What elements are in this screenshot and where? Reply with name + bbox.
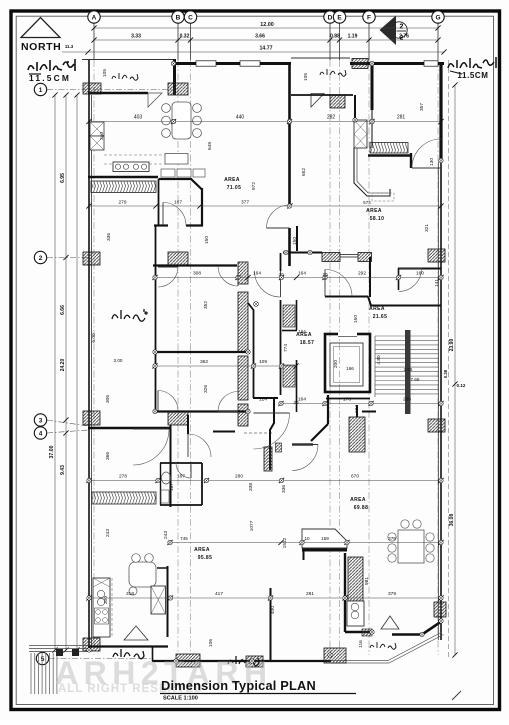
svg-text:243: 243 [105,529,111,537]
hatched wall x243 [238,262,248,284]
dim line y480 [86,474,443,484]
svg-text:1512: 1512 [282,537,288,548]
svg-text:167: 167 [174,200,182,206]
svg-text:167: 167 [169,483,175,491]
svg-text:AREA: AREA [350,497,366,503]
svg-text:340: 340 [99,132,105,140]
row3 lower wall [88,427,170,429]
right dimension chain [443,82,466,657]
bottom-right dining table [398,530,424,563]
svg-text:366: 366 [105,452,111,460]
bottom-left kitchen walls [167,566,169,637]
dining table [172,102,191,139]
kitchen wall y177 [88,176,158,178]
bottom-left kitchen table [129,562,156,587]
door arc bedroom bottom-left [188,434,211,457]
stair hall top wall [325,296,368,298]
grid bubble A [88,11,100,23]
grid bubble G [432,11,444,23]
kitchen appliances [90,122,104,136]
grid bubble C [184,11,196,23]
svg-text:69.88: 69.88 [354,505,369,511]
svg-text:400: 400 [270,606,276,614]
terrace label bottom-center [228,656,259,666]
svg-text:36.08: 36.08 [449,514,455,527]
svg-text:F: F [367,14,371,21]
grid bubble 2 [34,251,46,263]
svg-text:282: 282 [327,115,336,121]
svg-text:G: G [435,14,440,21]
svg-text:440: 440 [236,115,245,121]
svg-text:150: 150 [292,237,298,245]
grid bubble 4 [34,427,46,439]
svg-text:167: 167 [177,474,185,480]
kitchen counters bottom-right [347,601,364,626]
svg-text:SCALE 1:100: SCALE 1:100 [163,696,198,702]
radiator F-G room [370,143,408,154]
top dimension segments line [91,34,440,43]
top terrace D-F thin edge [291,57,350,59]
dim line y403 [259,397,444,407]
svg-text:649: 649 [207,142,213,150]
entry steps bottom-left [29,646,89,695]
kitchen stove counter [113,162,149,172]
expansion joint label (Arabic) top-right [448,57,496,68]
svg-text:6.66: 6.66 [60,305,66,315]
misc door arcs [133,266,352,465]
svg-text:292: 292 [358,271,366,277]
bath walls mid [296,300,298,330]
corridor walls [248,303,254,398]
elevator [325,334,370,392]
top dimension line 14.77 [85,46,446,55]
column grid lines [93,24,95,61]
counter cabinets above room [161,169,175,177]
svg-text:164: 164 [253,271,261,277]
svg-text:11.3: 11.3 [65,44,74,49]
svg-text:176: 176 [343,397,351,403]
svg-text:281: 281 [306,591,314,597]
kitchenette counter with chamfer [354,148,390,196]
svg-text:2: 2 [39,255,43,262]
dim line y277 [152,271,443,281]
section marker 2 [380,16,408,46]
svg-text:362: 362 [200,359,208,365]
svg-text:D: D [328,14,333,21]
svg-text:300: 300 [103,596,109,604]
svg-text:0.32: 0.32 [180,34,190,40]
wardrobe coil upper-left [91,181,156,193]
door leaf terrace bottom-right [381,616,399,629]
chamfer corner wall [327,395,329,424]
left dimension line 37.00 [49,92,58,652]
svg-text:972: 972 [251,182,257,190]
north arrow [21,18,61,54]
svg-text:11.5CM: 11.5CM [457,71,488,80]
svg-text:160: 160 [416,271,424,277]
svg-text:281: 281 [397,115,406,121]
fridge column [151,586,166,614]
door room 326 [158,391,178,411]
grid bubble 5 [36,652,48,664]
small walls above bath [187,415,189,434]
column A/bottom [83,638,100,651]
rotated dims [91,69,440,648]
svg-text:4: 4 [39,430,43,437]
svg-text:105: 105 [303,73,309,81]
svg-text:164: 164 [298,397,306,403]
grid bubble D [324,11,336,23]
svg-text:379: 379 [388,591,396,597]
room 167 with chamfer [159,179,203,190]
svg-text:352: 352 [203,301,209,309]
svg-text:0.12: 0.12 [457,383,466,388]
svg-text:336: 336 [106,233,112,241]
left dimension chain [60,92,69,652]
svg-text:266: 266 [403,397,411,403]
svg-text:12.00: 12.00 [260,22,274,28]
svg-text:0.38: 0.38 [443,369,448,378]
terrace door leaf [148,93,162,107]
svg-text:58.10: 58.10 [370,216,385,222]
column D/E top [330,95,345,108]
svg-text:6.95: 6.95 [60,173,66,183]
column bottom C [246,656,263,667]
column A/1 [83,83,101,94]
column B/3 [168,411,188,425]
svg-text:379: 379 [388,536,396,541]
door living-hall [267,205,290,228]
svg-text:3.33: 3.33 [131,34,141,40]
svg-text:AREA: AREA [296,332,312,338]
right exterior wall top (thick) [439,62,442,162]
bottom wall left [88,645,168,647]
bottom-right terrace walls [392,633,422,636]
column G/3 [428,419,445,432]
svg-text:AREA: AREA [366,208,382,214]
svg-text:159: 159 [321,536,329,541]
dim line y206 [86,200,443,209]
kitchen bottom wall + door [345,631,371,633]
svg-text:164: 164 [298,271,306,277]
svg-text:5: 5 [41,656,45,663]
corridor bottom jog [253,397,278,399]
area labels [194,177,387,561]
wardrobe coil bottom-left [92,492,156,504]
svg-text:95.85: 95.85 [198,555,213,561]
right dashed boundary [448,60,450,660]
grid bubble 3 [34,414,46,426]
svg-text:NORTH: NORTH [21,41,61,53]
svg-text:1.19: 1.19 [348,34,358,40]
row grid leader lines [47,89,174,91]
svg-text:321: 321 [424,224,430,232]
dark wall below counter [302,549,347,552]
bottom-center room wall [270,588,272,661]
terrace door leaf D [311,94,324,108]
svg-text:6.00: 6.00 [91,333,97,343]
svg-text:124: 124 [354,405,360,413]
svg-text:AREA: AREA [194,547,210,553]
svg-text:109: 109 [259,359,267,365]
kitchenette unit AREA 58.10 [354,120,367,148]
svg-text:326: 326 [203,385,209,393]
svg-text:7.66: 7.66 [411,377,420,382]
svg-text:21.65: 21.65 [373,314,388,320]
kitchen island [165,154,188,165]
column A/2 [83,252,100,265]
svg-text:106: 106 [208,639,214,647]
svg-text:0.88: 0.88 [330,34,340,40]
svg-text:B: B [176,14,181,21]
top-left terrace walls [82,59,174,61]
terrace outline thin [331,632,442,661]
svg-text:14.77: 14.77 [260,46,273,52]
terrace label top-right [320,69,346,76]
svg-text:166: 166 [346,366,354,371]
stair hall bottom wall [362,411,376,413]
svg-text:E: E [337,14,342,21]
terrace label bottom-right [370,642,396,649]
grid bubble F [363,11,375,23]
svg-text:9.43: 9.43 [60,465,66,475]
wall between 352/326 [155,351,248,353]
terrace label top-left [112,73,138,80]
living/hall wall x289 [288,62,291,206]
column G/5 [434,602,446,617]
kitchen left wall bottom-right [344,553,346,632]
svg-text:130: 130 [429,158,435,166]
svg-text:18.57: 18.57 [300,340,315,346]
svg-text:150: 150 [353,315,359,323]
svg-text:3.66: 3.66 [255,34,265,40]
svg-text:124: 124 [259,397,267,403]
WC fixtures mid [283,305,295,327]
kitchen counter top (bottom-right) [302,529,347,548]
svg-text:141: 141 [434,279,440,287]
F-G room bottom wall [368,154,411,156]
svg-text:417: 417 [215,591,223,597]
column bottom D [324,648,346,663]
wall x355 stub [354,95,356,120]
svg-text:745: 745 [180,536,188,541]
bottom-left kitchen counters [93,578,110,637]
wall F top room [371,62,374,110]
dim line y365 [152,359,298,369]
svg-text:3: 3 [39,417,43,424]
svg-text:243: 243 [163,531,169,539]
hatched block hall [349,417,365,452]
door F-G room [412,139,441,168]
svg-text:AREA: AREA [369,306,385,312]
svg-text:338: 338 [248,483,254,491]
svg-text:574: 574 [363,200,371,205]
svg-text:AREA: AREA [224,177,240,183]
svg-text:377: 377 [241,200,249,206]
svg-text:336: 336 [281,485,287,493]
svg-text:308: 308 [193,271,201,277]
svg-text:2.66: 2.66 [404,367,413,372]
svg-text:3.00: 3.00 [114,358,123,363]
svg-text:403: 403 [134,115,143,121]
svg-text:116: 116 [358,640,364,648]
row2 wall right part [283,252,322,254]
door room 352 [158,267,178,287]
svg-text:1: 1 [39,87,43,94]
svg-text:20: 20 [293,400,299,405]
svg-text:37.00: 37.00 [49,445,55,458]
dim line y542 [167,536,443,545]
svg-text:774: 774 [283,344,289,352]
bedroom wall x170 [170,425,172,507]
grid bubble B [172,11,184,23]
wall under terrace D-E [291,94,353,96]
svg-text:A: A [92,14,97,21]
svg-text:Dimension Typical PLAN: Dimension Typical PLAN [161,678,316,693]
left dimension line 2 [74,92,79,652]
svg-text:2: 2 [400,24,404,31]
light well walls [155,266,157,413]
dim line y121 [86,115,443,125]
svg-text:2.76: 2.76 [399,34,409,40]
svg-text:318: 318 [126,591,134,597]
column A/3 [83,411,100,425]
top wall F-G [350,62,444,65]
bottom wall center [152,660,331,662]
dim line y597 [86,591,443,601]
svg-text:279: 279 [118,200,126,206]
grid bubble E [333,11,345,23]
svg-text:670: 670 [351,474,359,480]
svg-text:280: 280 [235,474,243,480]
bath bottom-left walls [160,462,202,464]
light well label [112,309,147,321]
stairs [375,330,439,414]
svg-text:C: C [188,14,193,21]
svg-text:652: 652 [301,168,307,176]
row3 wall [155,410,248,412]
fridge hatch [348,557,363,601]
junction markers [87,61,443,663]
svg-text:200: 200 [333,360,339,368]
bath fixtures [162,472,171,484]
expansion joint label (Arabic) top-left [28,59,75,71]
svg-text:278: 278 [119,474,127,480]
svg-text:10: 10 [304,536,310,541]
svg-text:981: 981 [364,577,370,585]
kitchen door leaf [124,626,148,640]
top dimension line 12.00 [91,22,440,31]
column B/2 [168,252,188,265]
right exterior wall [440,162,442,640]
column bottom B [176,654,200,667]
svg-text:105: 105 [102,69,108,77]
wardrobe mid right [264,447,272,471]
grid bubble 1 [34,83,46,95]
left exterior wall [88,59,90,648]
svg-text:1077: 1077 [249,520,255,531]
svg-text:4.80: 4.80 [376,355,382,365]
horizontal small dims [114,200,420,405]
room 160 walls [398,268,441,270]
column B/1 [168,83,188,95]
svg-text:24.20: 24.20 [60,359,66,372]
svg-text:71.05: 71.05 [227,185,242,191]
top wall B-D [173,62,291,65]
column G/2 [428,249,445,262]
svg-text:357: 357 [419,103,425,111]
svg-text:23.90: 23.90 [449,339,455,352]
terrace label below kitchen [113,649,144,659]
svg-text:150: 150 [204,236,210,244]
svg-text:306: 306 [105,395,111,403]
